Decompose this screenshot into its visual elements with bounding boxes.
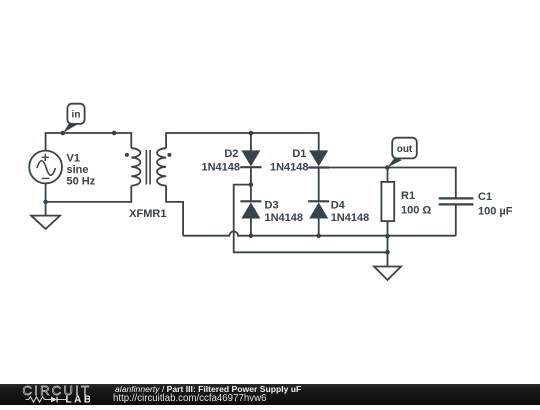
wire R1 bottom to lower junction bbox=[387, 236, 389, 252]
node dot: lower line junction bbox=[385, 250, 390, 255]
svg-text:D4: D4 bbox=[331, 199, 346, 211]
svg-text:100 Ω: 100 Ω bbox=[401, 205, 431, 217]
node dot: in-flag tap on top rail bbox=[61, 131, 66, 136]
svg-text:1N4148: 1N4148 bbox=[331, 212, 370, 224]
label R1 value bbox=[401, 190, 431, 217]
wire secondary bottom down to bottom rail bbox=[166, 186, 183, 236]
ground right bbox=[374, 267, 401, 281]
svg-text:C1: C1 bbox=[478, 191, 492, 203]
svg-text:in: in bbox=[72, 110, 81, 121]
svg-text:D3: D3 bbox=[265, 199, 279, 211]
resistor R1 bbox=[381, 168, 394, 237]
footer bar bbox=[0, 384, 540, 405]
phase dot primary bbox=[125, 153, 129, 157]
wire out rail bbox=[319, 168, 456, 199]
diode D3 bbox=[240, 185, 261, 236]
transformer XFMR1 bbox=[131, 148, 166, 185]
label D1 bbox=[270, 148, 309, 173]
wire top rail left (V1 top to transformer primary top) bbox=[46, 133, 132, 151]
node dot: wire segment junction on top rail bbox=[112, 131, 117, 136]
CircuitLab logo bbox=[20, 383, 90, 405]
in flag bbox=[63, 104, 85, 133]
label V1 value bbox=[67, 153, 96, 188]
node dot: D2 tap on top rail bbox=[249, 131, 254, 136]
svg-text:1N4148: 1N4148 bbox=[201, 161, 240, 173]
label D2 bbox=[201, 148, 240, 173]
footer url bbox=[113, 394, 266, 404]
svg-text:R1: R1 bbox=[401, 190, 415, 202]
svg-text:sine: sine bbox=[67, 164, 89, 176]
voltage source V1 bbox=[29, 151, 62, 184]
svg-text:1N4148: 1N4148 bbox=[265, 212, 304, 224]
svg-text:50 Hz: 50 Hz bbox=[67, 176, 96, 188]
wire to right ground bbox=[387, 252, 389, 266]
out flag bbox=[387, 138, 417, 168]
phase dot secondary bbox=[167, 153, 171, 157]
diode D1 bbox=[308, 150, 329, 201]
svg-text:out: out bbox=[397, 144, 413, 155]
svg-text:1N4148: 1N4148 bbox=[270, 161, 309, 173]
node dot: R1 bottom on bottom rail bbox=[385, 234, 390, 239]
node dot: D3 anode on bottom rail bbox=[249, 233, 254, 238]
node dot: out tap / R1 top bbox=[385, 165, 390, 170]
svg-text:100 µF: 100 µF bbox=[478, 206, 513, 218]
svg-text:LAB: LAB bbox=[66, 395, 91, 405]
node dot: D2/D3 cathode junction bbox=[249, 182, 254, 187]
node dot: V1 bottom junction bbox=[43, 200, 48, 205]
footer credit text bbox=[115, 385, 301, 394]
wire V1 bottom to transformer primary bottom bbox=[46, 186, 132, 202]
diode D2 bbox=[240, 133, 261, 185]
svg-text:D1: D1 bbox=[292, 148, 306, 160]
label C1 value bbox=[478, 191, 513, 218]
label D3 bbox=[265, 199, 304, 224]
wire D2/D3 node jog to lower line bbox=[234, 185, 388, 253]
svg-text:D2: D2 bbox=[224, 148, 238, 160]
svg-text:V1: V1 bbox=[67, 153, 80, 165]
capacitor C1 bbox=[439, 198, 474, 235]
node dot: D4 anode on bottom rail bbox=[316, 233, 321, 238]
diode D4 bbox=[308, 201, 329, 235]
wire V1 bottom bbox=[45, 183, 47, 202]
svg-text:XFMR1: XFMR1 bbox=[129, 208, 166, 220]
ground under V1 bbox=[31, 202, 60, 229]
wire secondary top to top rail right bbox=[166, 133, 319, 151]
wire bottom rail with hop bbox=[183, 231, 456, 235]
label D4 bbox=[331, 199, 370, 224]
